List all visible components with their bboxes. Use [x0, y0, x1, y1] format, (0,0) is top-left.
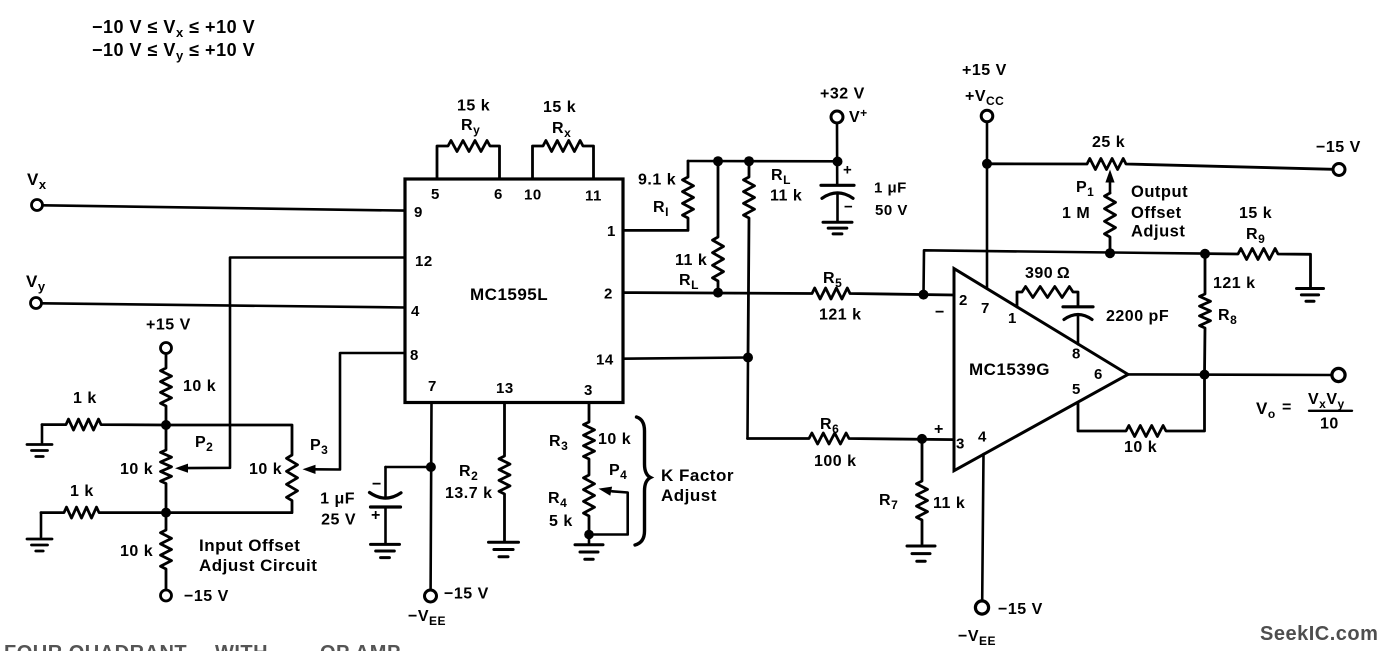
svg-text:OP AMP: OP AMP [320, 642, 401, 651]
svg-text:+15 V: +15 V [146, 317, 191, 334]
svg-text:1 k: 1 k [70, 483, 94, 500]
svg-text:121 k: 121 k [1213, 275, 1256, 292]
svg-text:15 k: 15 k [1239, 205, 1272, 222]
svg-text:Input Offset: Input Offset [199, 536, 300, 555]
svg-text:13.7 k: 13.7 k [445, 485, 492, 502]
svg-text:1 μF: 1 μF [320, 491, 355, 508]
svg-text:8: 8 [1072, 346, 1081, 363]
svg-text:10: 10 [1320, 416, 1339, 433]
svg-text:2: 2 [959, 292, 968, 309]
svg-text:9.1 k: 9.1 k [638, 172, 676, 189]
svg-text:2: 2 [604, 286, 613, 303]
svg-text:+32 V: +32 V [820, 86, 865, 103]
svg-text:1 M: 1 M [1062, 205, 1090, 222]
svg-text:−10 V ≤ Vx ≤ +10 V: −10 V ≤ Vx ≤ +10 V [92, 17, 255, 40]
svg-text:Output: Output [1131, 183, 1188, 201]
svg-text:15 k: 15 k [457, 98, 490, 115]
svg-text:13: 13 [496, 380, 514, 397]
svg-text:14: 14 [596, 352, 614, 369]
svg-text:+: + [371, 507, 381, 524]
svg-text:2200 pF: 2200 pF [1106, 308, 1169, 325]
svg-text:6: 6 [494, 186, 503, 203]
svg-text:−: − [844, 199, 853, 216]
svg-text:−15 V: −15 V [998, 601, 1043, 618]
svg-text:MC1539G: MC1539G [969, 360, 1050, 379]
svg-text:5: 5 [431, 186, 440, 203]
svg-text:50 V: 50 V [875, 202, 908, 219]
svg-text:1: 1 [1008, 310, 1017, 327]
svg-text:121 k: 121 k [819, 307, 862, 324]
svg-text:+: + [843, 162, 852, 179]
svg-text:=: = [1282, 399, 1292, 416]
svg-text:10 k: 10 k [183, 378, 216, 395]
svg-text:100 k: 100 k [814, 453, 857, 470]
svg-text:3: 3 [584, 382, 593, 399]
svg-text:10 k: 10 k [120, 461, 153, 478]
svg-text:10 k: 10 k [249, 461, 282, 478]
svg-text:11 k: 11 k [933, 495, 965, 512]
svg-text:Adjust Circuit: Adjust Circuit [199, 556, 317, 575]
svg-text:25 V: 25 V [321, 512, 356, 529]
svg-text:+15 V: +15 V [962, 62, 1007, 79]
svg-text:K Factor: K Factor [661, 466, 734, 485]
svg-text:3: 3 [956, 436, 965, 453]
svg-text:SeekIC.com: SeekIC.com [1260, 623, 1378, 645]
svg-text:MC1595L: MC1595L [470, 285, 548, 304]
svg-text:7: 7 [428, 378, 437, 395]
svg-text:−15 V: −15 V [184, 588, 229, 605]
svg-text:5: 5 [1072, 381, 1081, 398]
svg-text:15 k: 15 k [543, 99, 576, 116]
svg-text:−: − [935, 304, 945, 321]
svg-text:−15 V: −15 V [444, 586, 489, 603]
svg-text:4: 4 [978, 429, 987, 446]
svg-text:390 Ω: 390 Ω [1025, 265, 1070, 282]
svg-text:25 k: 25 k [1092, 134, 1125, 151]
svg-text:7: 7 [981, 300, 990, 317]
svg-text:11 k: 11 k [770, 188, 802, 205]
svg-text:1 k: 1 k [73, 390, 97, 407]
svg-text:1: 1 [607, 223, 616, 240]
svg-text:10 k: 10 k [120, 543, 153, 560]
svg-text:11 k: 11 k [675, 252, 707, 269]
svg-text:5 k: 5 k [549, 513, 573, 530]
svg-text:12: 12 [415, 253, 433, 270]
svg-text:6: 6 [1094, 366, 1103, 383]
svg-text:WITH: WITH [215, 642, 268, 651]
svg-text:+: + [934, 421, 944, 438]
svg-text:−15 V: −15 V [1316, 139, 1361, 156]
svg-text:8: 8 [410, 347, 419, 364]
svg-text:10: 10 [524, 187, 542, 204]
svg-text:−10 V ≤ Vy ≤ +10 V: −10 V ≤ Vy ≤ +10 V [92, 40, 255, 63]
svg-text:11: 11 [585, 188, 602, 205]
svg-text:Adjust: Adjust [661, 486, 717, 505]
svg-text:10 k: 10 k [598, 431, 631, 448]
svg-text:FOUR QUADRANT: FOUR QUADRANT [4, 642, 187, 651]
svg-text:Offset: Offset [1131, 204, 1182, 222]
svg-text:9: 9 [414, 204, 423, 221]
svg-text:1 μF: 1 μF [874, 180, 907, 197]
svg-text:Adjust: Adjust [1131, 223, 1185, 241]
svg-text:10 k: 10 k [1124, 439, 1157, 456]
svg-text:−: − [372, 476, 382, 493]
svg-text:4: 4 [411, 303, 420, 320]
